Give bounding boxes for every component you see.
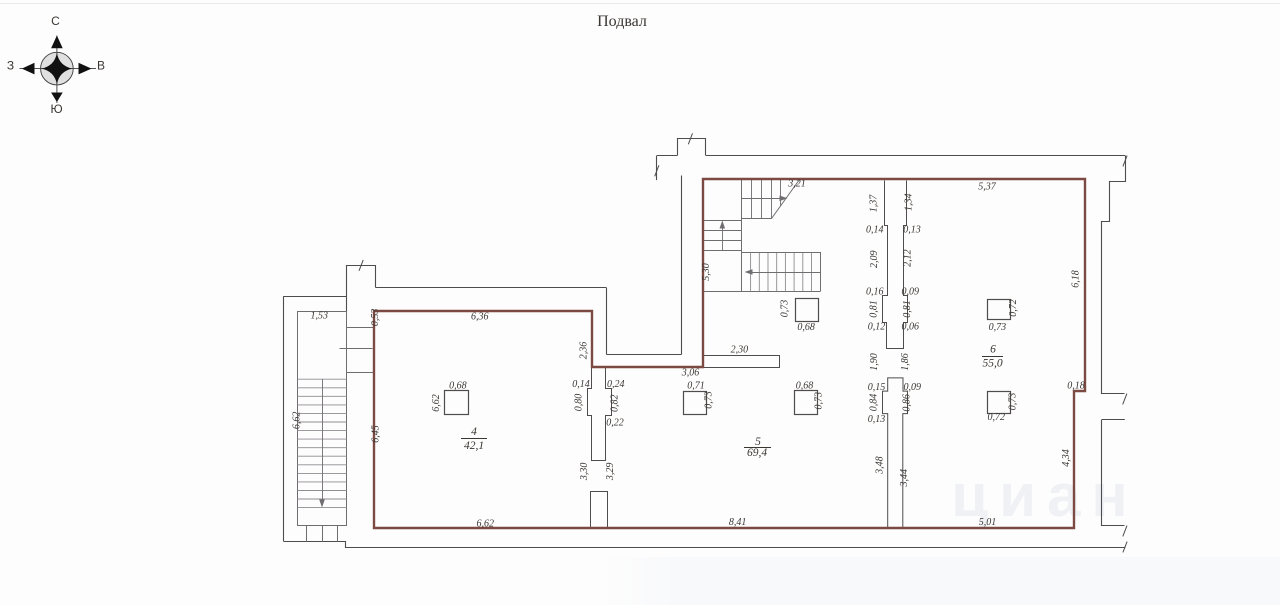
outer wall top-left horizontal <box>283 296 346 298</box>
svg-text:0,14: 0,14 <box>572 379 590 390</box>
lower flight treads <box>751 253 812 292</box>
svg-text:0,82: 0,82 <box>610 394 621 412</box>
svg-text:5,37: 5,37 <box>978 182 997 193</box>
landing edge vertical lower <box>741 253 743 292</box>
column room6 north <box>988 300 1011 320</box>
corridor east wall vertical <box>606 288 608 355</box>
outer wall right lower vertical <box>1102 420 1125 526</box>
svg-text:1,90: 1,90 <box>869 353 880 371</box>
break tick top right <box>1123 156 1127 167</box>
svg-text:0,73: 0,73 <box>1007 393 1018 411</box>
svg-text:55,0: 55,0 <box>982 358 1002 370</box>
red premises outline <box>374 179 1085 528</box>
break tick bottom right <box>1123 542 1127 553</box>
svg-text:В: В <box>97 59 105 73</box>
svg-text:6,62: 6,62 <box>477 519 495 530</box>
svg-text:0,73: 0,73 <box>813 392 824 410</box>
window jamb line with tick <box>656 156 658 181</box>
stairwell centre line with down arrow <box>322 379 324 503</box>
svg-text:0,53: 0,53 <box>370 309 381 327</box>
svg-text:2,36: 2,36 <box>579 342 590 360</box>
svg-text:1,37: 1,37 <box>868 194 879 213</box>
outer wall top short piece <box>657 155 678 157</box>
svg-text:0,16: 0,16 <box>866 287 884 298</box>
svg-text:0,68: 0,68 <box>797 322 815 333</box>
svg-text:Ю: Ю <box>50 102 62 116</box>
svg-text:69,4: 69,4 <box>747 447 767 459</box>
svg-text:0,81: 0,81 <box>902 300 913 318</box>
svg-text:0,13: 0,13 <box>903 225 921 236</box>
svg-text:3,29: 3,29 <box>605 463 616 482</box>
svg-text:0,18: 0,18 <box>1067 381 1085 392</box>
wall from left stub to corridor <box>376 287 607 289</box>
svg-text:0,86: 0,86 <box>902 394 913 412</box>
svg-text:42,1: 42,1 <box>464 440 484 452</box>
outer wall right window sill <box>1102 419 1125 421</box>
page top hairline <box>0 3 1280 5</box>
svg-text:З: З <box>7 59 14 73</box>
partition 5-6 upper piece <box>883 181 908 349</box>
svg-text:Подвал: Подвал <box>597 13 647 30</box>
svg-text:С: С <box>51 14 60 28</box>
svg-text:1,34: 1,34 <box>904 194 915 212</box>
hatch ticks below stairwell <box>307 526 338 542</box>
partition 4-5 upper left face <box>588 368 612 461</box>
column room6 south <box>988 392 1011 414</box>
svg-text:0,12: 0,12 <box>868 321 886 332</box>
svg-text:0,72: 0,72 <box>988 412 1006 423</box>
corridor bottom wall horizontal <box>607 354 682 356</box>
column room5 west <box>684 392 707 415</box>
column room5 east <box>795 391 818 415</box>
lower flight direction line with arrow <box>748 272 820 274</box>
svg-text:0,14: 0,14 <box>866 225 884 236</box>
outer wall top main horizontal <box>706 155 1125 157</box>
left entrance stub <box>347 266 376 312</box>
partition 4-5 lower piece <box>591 492 608 528</box>
landing edge vertical <box>741 219 743 253</box>
svg-text:0,22: 0,22 <box>606 417 624 428</box>
partition 5-6 lower piece <box>883 378 908 527</box>
svg-text:0,09: 0,09 <box>902 287 920 298</box>
svg-text:1,53: 1,53 <box>311 311 329 322</box>
svg-text:3,48: 3,48 <box>875 456 886 475</box>
winder centre line with up arrow <box>722 226 724 250</box>
upper flight direction line with arrow <box>742 198 784 200</box>
break tick right window top <box>1123 394 1127 405</box>
svg-text:6,36: 6,36 <box>471 312 489 323</box>
svg-text:6,18: 6,18 <box>1071 270 1082 288</box>
svg-text:0,73: 0,73 <box>703 391 714 409</box>
outer wall left vertical <box>283 296 285 541</box>
upper stair flight <box>742 180 800 219</box>
svg-text:2,30: 2,30 <box>731 345 749 356</box>
svg-text:0,73: 0,73 <box>989 322 1007 333</box>
svg-text:1,86: 1,86 <box>900 353 911 371</box>
svg-text:0,15: 0,15 <box>868 382 886 393</box>
svg-text:0,68: 0,68 <box>796 381 814 392</box>
svg-text:6,62: 6,62 <box>431 394 442 412</box>
svg-text:0,71: 0,71 <box>687 381 705 392</box>
break tick top stub <box>688 133 692 144</box>
svg-text:3,06: 3,06 <box>681 368 700 379</box>
outer wall bottom-left <box>284 542 1126 548</box>
svg-text:2,12: 2,12 <box>903 249 914 267</box>
svg-text:0,13: 0,13 <box>868 414 886 425</box>
break tick right lower <box>1123 526 1127 537</box>
middle winder treads <box>704 221 742 251</box>
stair treads left stairwell <box>297 379 346 507</box>
svg-text:6,62: 6,62 <box>292 412 303 430</box>
svg-text:6,45: 6,45 <box>371 425 382 443</box>
svg-text:5,01: 5,01 <box>979 517 997 528</box>
stairwell box <box>298 312 347 526</box>
break tick left stub <box>359 260 363 271</box>
wall 2,30 rectangle <box>704 356 780 368</box>
break tick jamb <box>655 165 659 176</box>
svg-text:0,24: 0,24 <box>607 379 625 390</box>
svg-text:4,34: 4,34 <box>1061 449 1072 467</box>
svg-text:3,21: 3,21 <box>787 179 806 190</box>
lower stair flight <box>742 253 821 292</box>
top entrance stub <box>678 139 706 156</box>
svg-text:0,06: 0,06 <box>902 321 920 332</box>
svg-text:0,84: 0,84 <box>868 394 879 412</box>
svg-text:3,30: 3,30 <box>579 463 590 482</box>
doorway lines right of stairwell <box>340 328 375 373</box>
lower flight landing bottom line <box>704 291 821 293</box>
svg-text:0,72: 0,72 <box>1008 299 1019 317</box>
svg-text:2,09: 2,09 <box>869 251 880 269</box>
svg-text:0,68: 0,68 <box>449 381 467 392</box>
svg-text:8,41: 8,41 <box>729 517 747 528</box>
compass rose <box>20 36 97 104</box>
column room4 <box>445 391 469 415</box>
svg-text:0,81: 0,81 <box>868 300 879 318</box>
stair hall west wall <box>681 176 683 355</box>
svg-text:0,73: 0,73 <box>780 300 791 318</box>
svg-text:0,80: 0,80 <box>574 394 585 412</box>
column hall <box>796 299 819 322</box>
svg-text:0,09: 0,09 <box>903 382 921 393</box>
svg-text:4: 4 <box>471 426 477 438</box>
svg-text:5,30: 5,30 <box>701 263 712 281</box>
svg-text:6: 6 <box>990 344 996 356</box>
outer wall right upper <box>1102 156 1126 394</box>
svg-text:3,44: 3,44 <box>899 469 910 488</box>
